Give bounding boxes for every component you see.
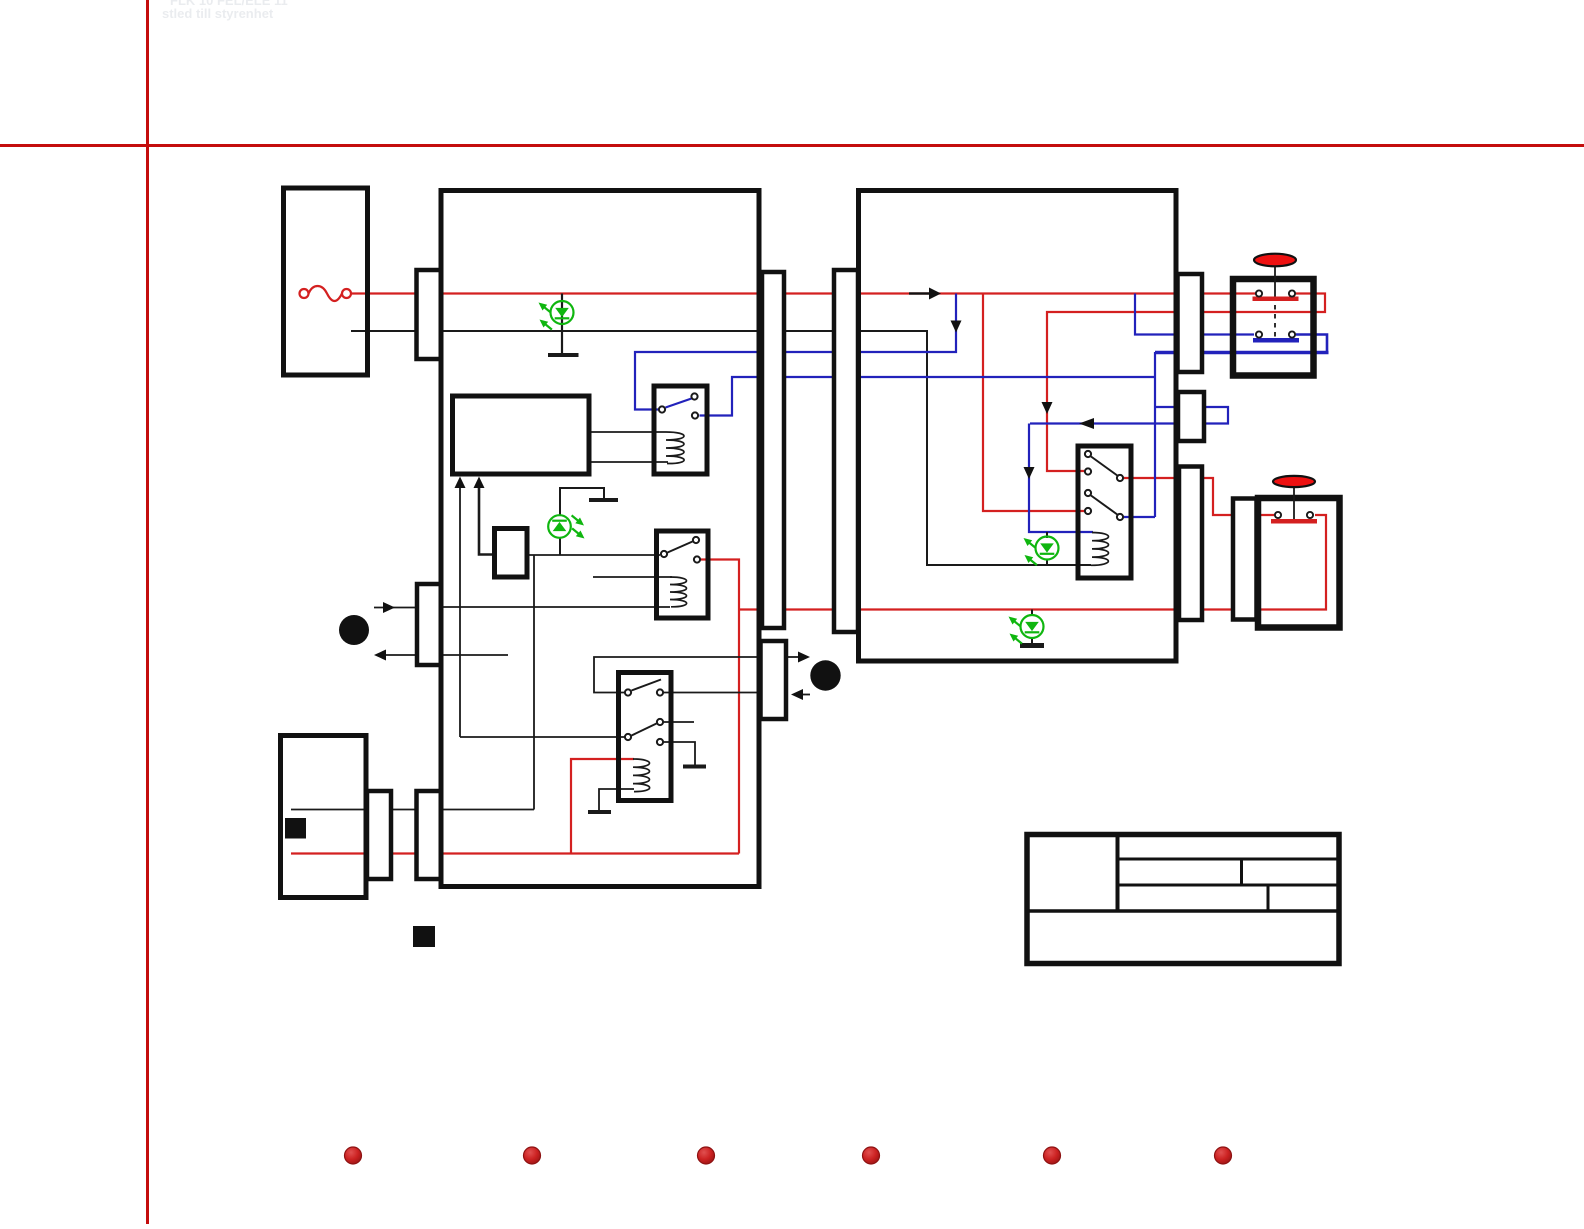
wire: stub K input arrow line: [803, 694, 810, 696]
relay K4 box: [1078, 446, 1131, 578]
node dot right of stub K: [810, 660, 840, 690]
wire: stub I input arrow line: [374, 607, 417, 609]
wire: relay J pole2 common feed y=737: [460, 736, 626, 738]
connector stub R4: [1233, 499, 1257, 620]
connector stub R1 (right module right edge): [1178, 274, 1203, 372]
connector column X2: [834, 270, 858, 632]
wire: red button2 return to y=609.5 rail: [739, 515, 1326, 610]
LED4 connection stubs and ground G5: [1031, 610, 1033, 617]
relay K3 box: [619, 673, 672, 801]
wire: blue drop x=1135 to button1 lower contacts: [1135, 294, 1254, 335]
wire: red vertical x=983 to relay Q pole2: [983, 294, 1084, 512]
arrow left into stub K: [791, 689, 803, 700]
connector stub B (left module left edge top): [417, 270, 442, 359]
wire: red relay H output vertical x=739: [701, 560, 739, 854]
wire: relay H coil upper y=577: [593, 576, 672, 578]
wire: blue relay E output to right module y=376.5: [700, 377, 1156, 416]
connector stub K (left module right edge bottom): [761, 641, 787, 719]
connector stub I (left module left edge middle): [417, 584, 441, 665]
wire: blue button1 return loop to x=1155 vertical: [1296, 335, 1327, 352]
connector stub R3: [1179, 467, 1202, 621]
wire: red riser to relay J coil: [571, 759, 634, 854]
wire: up-arrow line 2 into box D from box F: [479, 487, 494, 555]
wire: relay H coil lower long rail y=607: [441, 606, 670, 608]
svg-text:stled till styrenhet: stled till styrenhet: [162, 6, 274, 21]
wire: black neutral from box A through modules: [351, 331, 1091, 565]
arrow down on red x=1047: [1042, 402, 1053, 414]
fuse F1 terminal circles: [300, 289, 309, 298]
relay K1 box: [654, 386, 707, 474]
black square in box L: [285, 818, 306, 839]
relay K1 (left module top): [659, 393, 698, 463]
ground G4 bar: [588, 810, 611, 814]
wire: relay J pole1 common loop: [594, 657, 760, 693]
wire: stub K output arrow line: [786, 656, 799, 658]
red page border vertical line: [146, 0, 149, 1224]
wire: vertical x=534: [533, 555, 535, 810]
wire: blue drop to relay Q coil: [1029, 424, 1093, 533]
arrow right out of stub K: [798, 652, 810, 663]
wire: red bottom rail y=853.5 from box L: [291, 852, 739, 854]
box F (small block): [495, 529, 528, 578]
relay K4 (right module, two poles): [1085, 451, 1123, 565]
wire: blue jumper loop at stub R2: [1030, 407, 1228, 424]
relay K2 box: [657, 531, 709, 618]
push-button S2 box: [1258, 498, 1340, 628]
wire: blue vertical bus x=1155: [1154, 352, 1156, 517]
red page border horizontal line: [0, 144, 1584, 147]
connector stub M: [367, 791, 391, 879]
ground G3 bar: [683, 765, 706, 769]
LED D3 green: [1024, 537, 1059, 566]
wire: box D to relay E coil upper: [589, 431, 666, 433]
wire: short stub line y=655: [441, 654, 508, 656]
push-button S1 internals: [1253, 254, 1300, 343]
red cap button S2: [1273, 476, 1315, 487]
wire: blue relay Q pole2 output: [1124, 516, 1155, 518]
wire: box F to relay H common y=555: [527, 554, 660, 556]
wire: up-arrow line 1 into box D: [459, 487, 461, 737]
box L (bottom-left unit): [281, 736, 367, 898]
arrow up into box D 1: [455, 477, 466, 489]
wire: relay J pole2 lower throw to ground: [663, 742, 695, 765]
box A (power source): [284, 188, 368, 375]
arrow right into stub I: [383, 602, 395, 613]
LED D2 green (emits down-right): [548, 515, 584, 538]
faint cut-off text top-left: [162, 0, 288, 21]
arrow left out of stub I: [374, 650, 386, 661]
connector column X1: [762, 272, 784, 628]
wire: relay J pole2 upper throw stub: [663, 721, 694, 723]
arrow down on blue x=1029: [1024, 467, 1035, 479]
wire: relay J pole1 NO contact out: [663, 692, 760, 694]
push-button S1 box: [1233, 279, 1314, 376]
relay K2 (left module middle): [661, 537, 700, 607]
LED2 anode/cathode lines and ground G2: [559, 537, 561, 555]
arrow down on blue x=956: [951, 321, 962, 333]
wire: box D to relay E coil lower: [589, 461, 668, 463]
wire: red button1 return loop y=312: [1047, 294, 1325, 472]
fuse F1 squiggle: [309, 286, 343, 301]
wire: main red feed y=293.5 from fuse to push-button1 left top contact: [352, 292, 1258, 294]
arrow left on blue y=423.5: [1079, 418, 1094, 429]
relay K3 (left module bottom, two poles): [625, 680, 663, 792]
connector stub R2: [1178, 392, 1204, 441]
push-button S2 internals: [1271, 476, 1317, 524]
LED1 cathode line and ground: [561, 294, 563, 354]
LED D1 green: [539, 301, 574, 330]
module 2 (right control unit): [859, 191, 1177, 662]
arrow up into box D 2: [474, 477, 485, 489]
wire: relay J coil bottom to ground: [599, 789, 634, 810]
wire: stub I output arrow line: [386, 654, 417, 656]
arrow right on red feed: [909, 292, 930, 294]
LED D4 green: [1009, 615, 1044, 644]
box D (logic block): [453, 396, 590, 474]
connector stub N: [417, 791, 442, 879]
wire: blue feed drop x=956 to relay E common: [635, 294, 956, 410]
wire: bottom black rail y=809.5 from box L: [291, 809, 534, 811]
module 1 (left control unit): [441, 191, 759, 887]
wire: red relay Q pole1 output to button2: [1124, 478, 1274, 515]
node dot left of stub I: [339, 615, 369, 645]
LED3 connection stubs: [1046, 532, 1048, 538]
black square below module 1: [413, 926, 435, 947]
red cap button S1: [1254, 254, 1296, 267]
